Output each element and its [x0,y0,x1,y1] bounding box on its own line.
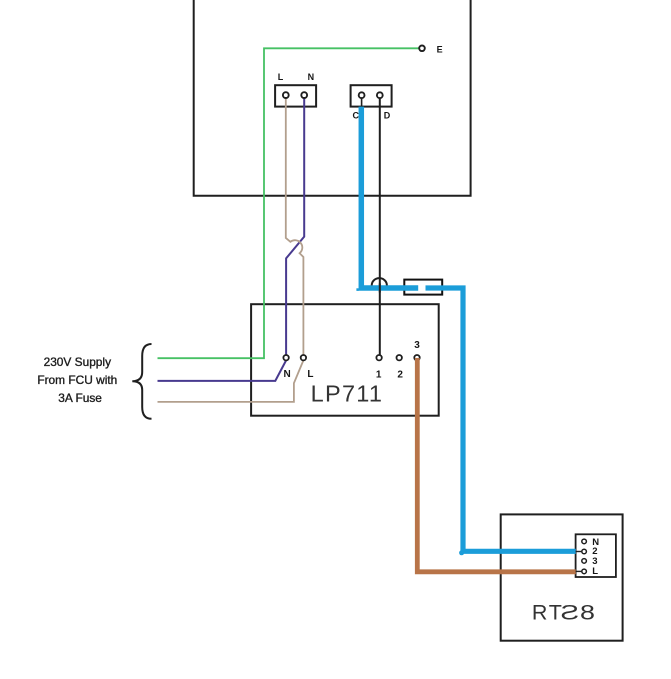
svg-text:S: S [560,600,579,624]
svg-text:3: 3 [414,340,420,351]
svg-text:N: N [308,72,315,82]
svg-text:D: D [384,110,391,120]
svg-text:L: L [278,72,284,82]
svg-text:N: N [283,369,290,380]
svg-text:3A Fuse: 3A Fuse [58,391,102,405]
svg-text:1: 1 [376,369,382,380]
svg-text:L: L [307,369,313,380]
svg-text:R: R [532,600,548,624]
svg-text:From FCU with: From FCU with [37,373,117,387]
svg-text:E: E [437,44,443,54]
svg-text:230V Supply: 230V Supply [44,355,111,369]
svg-text:C: C [353,110,360,120]
svg-text:2: 2 [397,369,403,380]
svg-text:LP711: LP711 [311,380,384,406]
svg-text:8: 8 [580,601,595,625]
svg-text:L: L [592,566,598,577]
